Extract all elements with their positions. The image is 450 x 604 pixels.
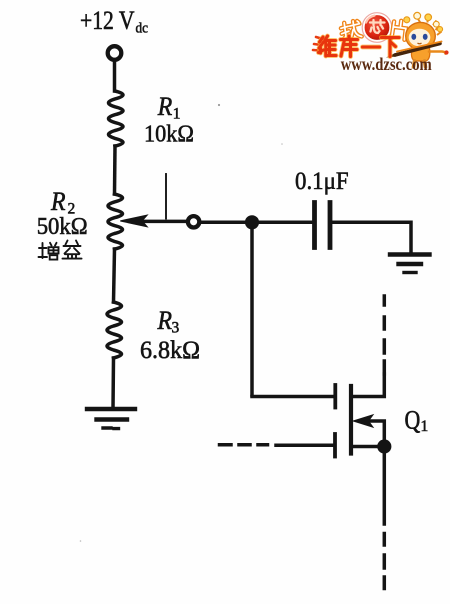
svg-text:Q: Q bbox=[405, 406, 421, 435]
wiper arrow of R2 bbox=[138, 220, 187, 224]
tick mark above wiper wire bbox=[165, 174, 167, 219]
resistor R1 bbox=[109, 91, 124, 146]
wire junction to capacitor bbox=[252, 221, 311, 225]
mascot eyes bbox=[411, 34, 416, 40]
logo seal circle with xin bbox=[362, 13, 392, 43]
label +12 Vdc bbox=[80, 6, 148, 37]
wire R1 to R2 bbox=[113, 146, 117, 194]
logo char pian (piece) outlined bbox=[392, 20, 407, 40]
char yi bbox=[63, 241, 82, 259]
svg-text:50kΩ: 50kΩ bbox=[37, 213, 88, 240]
gate2 dashed lead bbox=[220, 443, 268, 447]
open terminal on wiper wire bbox=[188, 216, 199, 227]
watermark logo dzsc bbox=[313, 12, 449, 74]
mascot head bbox=[406, 22, 436, 49]
logo char zhao (find) outlined bbox=[340, 20, 362, 39]
red speed dashes bbox=[313, 37, 323, 51]
gate2 lead solid bbox=[276, 444, 333, 448]
svg-text:R: R bbox=[50, 187, 66, 216]
mascot crown stalks bbox=[418, 18, 442, 36]
mascot arm right bbox=[429, 52, 446, 54]
ground (left, below R3) bbox=[87, 407, 135, 411]
drain dashed wire up bbox=[383, 296, 387, 374]
svg-text:www.dzsc.com: www.dzsc.com bbox=[341, 54, 432, 74]
wire junction down to gate 1 bbox=[250, 222, 254, 395]
wire capacitor to right ground bbox=[333, 222, 412, 254]
mascot crown balls bbox=[414, 12, 421, 19]
svg-text:10kΩ: 10kΩ bbox=[144, 120, 194, 147]
logo text weikuyixia (red main) bbox=[319, 36, 400, 57]
wire to gate1 bar bbox=[252, 395, 333, 399]
resistor R3 bbox=[107, 302, 122, 358]
mascot body bbox=[411, 48, 429, 61]
mascot face bbox=[409, 29, 431, 47]
source wire down bbox=[383, 453, 387, 524]
source node dot bbox=[377, 439, 391, 453]
source lead bbox=[353, 445, 385, 449]
svg-text:R: R bbox=[157, 92, 173, 121]
transistor Q1 gate1 bar bbox=[333, 385, 337, 408]
substrate arrow into channel bbox=[367, 421, 384, 441]
logo text weikuyixia (orange glow underlayer) bbox=[319, 36, 400, 57]
supply terminal +12Vdc bbox=[108, 46, 122, 60]
drain lead bbox=[353, 374, 385, 397]
label gain (zeng yi) hand-drawn bbox=[39, 241, 82, 260]
wire open terminal to junction bbox=[202, 220, 252, 224]
char zeng bbox=[39, 243, 59, 260]
wire R2 to R3 bbox=[114, 249, 115, 302]
wire R3 to ground bbox=[111, 358, 115, 409]
svg-text:3: 3 bbox=[172, 320, 180, 337]
svg-text:6.8kΩ: 6.8kΩ bbox=[140, 337, 200, 364]
wire terminal to R1 bbox=[113, 62, 117, 91]
svg-text:1: 1 bbox=[421, 418, 429, 435]
char xin inside seal bbox=[370, 20, 385, 33]
transistor Q1 gate2 bar bbox=[333, 434, 337, 457]
svg-text:0.1μF: 0.1μF bbox=[295, 168, 349, 195]
node junction dot bbox=[245, 215, 259, 229]
mascot legs bbox=[414, 61, 426, 67]
svg-text:+12 V: +12 V bbox=[80, 6, 135, 35]
mascot pen bbox=[395, 44, 440, 56]
source dashed wire down bbox=[383, 534, 387, 589]
svg-text:dc: dc bbox=[136, 20, 149, 36]
capacitor C 0.1uF bbox=[312, 203, 317, 248]
scan specks bbox=[218, 104, 220, 106]
transistor Q1 channel bar bbox=[349, 386, 353, 454]
ground (right, capacitor) bbox=[390, 252, 430, 256]
potentiometer R2 bbox=[108, 194, 123, 249]
svg-text:R: R bbox=[157, 306, 173, 335]
